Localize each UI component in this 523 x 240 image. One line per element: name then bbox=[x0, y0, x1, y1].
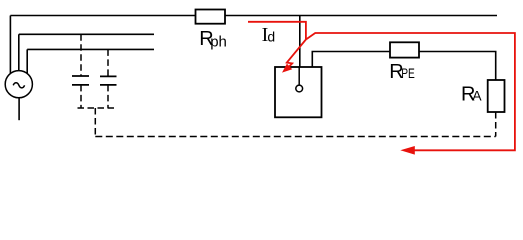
AC source G1 bbox=[5, 71, 32, 98]
wire L1 vertical drop to source bbox=[9, 16, 11, 76]
svg-text:A: A bbox=[472, 87, 482, 103]
red bolt arrowhead bbox=[282, 64, 292, 73]
wire tap from L1 down to appliance bbox=[299, 16, 301, 68]
resistor RA earth electrode bbox=[488, 80, 505, 112]
capacitor C2 bbox=[100, 76, 117, 85]
capacitor C1 dashed lead from L2 bbox=[80, 34, 82, 76]
capacitor C2 dashed lead from L3 bbox=[107, 49, 109, 76]
wire L3 vertical drop to source bbox=[26, 49, 28, 75]
dashed earth junction drop bbox=[94, 108, 96, 137]
dashed earth bus joining capacitors bbox=[78, 107, 115, 109]
red fault current path along phase bbox=[248, 22, 306, 40]
capacitor C1 dashed lead to earth bus bbox=[80, 85, 82, 108]
wire L2 vertical drop to source bbox=[18, 34, 20, 75]
wire source neutral stub bbox=[18, 98, 20, 120]
dashed earth return line bbox=[95, 136, 495, 138]
wire inside appliance to fault point bbox=[298, 67, 300, 85]
svg-text:ph: ph bbox=[210, 34, 227, 51]
svg-text:PE: PE bbox=[401, 65, 415, 81]
appliance frame (faulty equipment) bbox=[275, 67, 322, 117]
wire L2 phase conductor horizontal bbox=[19, 33, 154, 35]
resistor Rph bbox=[196, 10, 226, 24]
resistor RPE bbox=[390, 42, 419, 57]
wire PE conductor bbox=[312, 52, 495, 81]
wire L3 phase conductor horizontal bbox=[27, 48, 154, 50]
red return arrowhead bbox=[400, 146, 415, 155]
capacitor C1 bbox=[72, 76, 89, 85]
red fault current return path over RPE RA and earth bbox=[306, 33, 515, 150]
red fault lightning bolt bbox=[286, 40, 306, 70]
svg-text:d: d bbox=[267, 28, 275, 44]
dashed lead RA to earth bbox=[495, 112, 497, 137]
wire L1 phase conductor horizontal bbox=[10, 15, 497, 17]
capacitor C2 dashed lead to earth bus bbox=[107, 85, 109, 108]
fault point terminal bbox=[296, 85, 303, 92]
